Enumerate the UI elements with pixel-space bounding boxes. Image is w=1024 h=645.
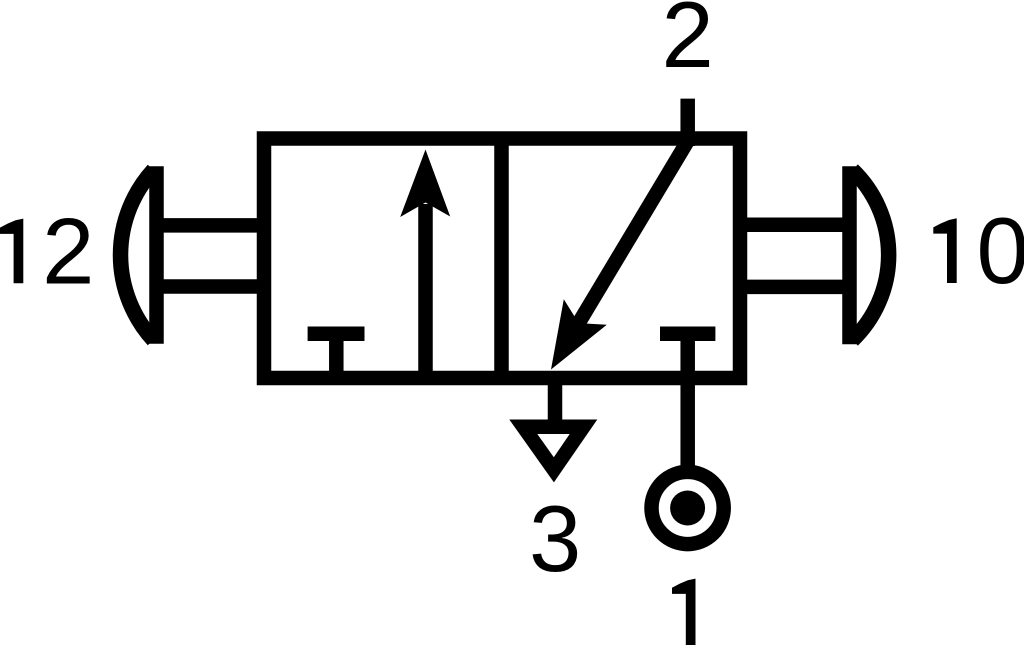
svg-text:2: 2 <box>42 198 94 303</box>
svg-text:3: 3 <box>529 486 581 591</box>
svg-text:0: 0 <box>977 198 1024 303</box>
svg-text:2: 2 <box>662 0 714 87</box>
